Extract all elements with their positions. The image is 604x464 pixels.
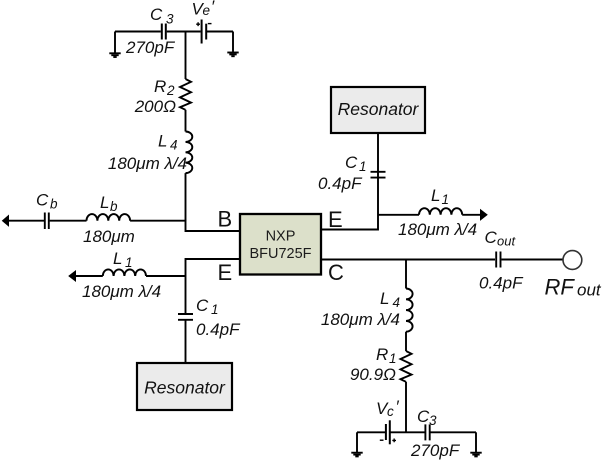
wire L1 branch (top right)	[378, 214, 419, 216]
svg-text:1: 1	[389, 351, 397, 366]
label L4 (upper)	[158, 132, 178, 153]
svg-text:C: C	[150, 5, 163, 24]
inductor L1 (top right)	[419, 208, 462, 215]
svg-text:out: out	[577, 281, 602, 300]
wire emitter (top right) to C1 node	[321, 133, 378, 230]
svg-text:R: R	[376, 345, 388, 364]
svg-text:1: 1	[125, 255, 133, 270]
svg-text:NXP: NXP	[266, 229, 296, 245]
label 0.4pF (top)	[318, 174, 363, 193]
svg-text:0.4pF: 0.4pF	[479, 274, 524, 293]
wire collector to output	[321, 259, 495, 261]
wire L1 to arrow (top right)	[462, 214, 481, 216]
svg-text:E: E	[218, 260, 233, 285]
input arrow (left)	[3, 216, 9, 226]
label C1 (bottom)	[196, 296, 219, 317]
label Ve'	[192, 0, 216, 19]
inductor Lb	[87, 214, 131, 221]
label L1 (top right)	[431, 186, 449, 207]
svg-text:BFU725F: BFU725F	[249, 246, 311, 262]
wire emitter (bottom left) to C1 node	[186, 259, 241, 314]
svg-text:180μm: 180μm	[83, 227, 135, 246]
inductor L4 (upper)	[186, 132, 193, 174]
label RFout	[545, 275, 602, 300]
wire Lb to node B	[130, 220, 185, 222]
node B wire into base	[186, 220, 241, 231]
label 180um lambda/4 (lower)	[321, 310, 400, 329]
label 200ohm	[134, 97, 176, 116]
svg-text:C: C	[36, 191, 49, 210]
svg-text:180μm λ/4: 180μm λ/4	[82, 282, 161, 301]
label 180um lambda/4 (bottom left)	[82, 282, 161, 301]
svg-text:E: E	[328, 207, 343, 232]
battery Vc'	[380, 420, 396, 444]
label L4 (lower)	[380, 289, 400, 310]
label Vc'	[376, 397, 400, 419]
bottom rail wires	[357, 431, 476, 433]
wire arrow to Cb	[8, 220, 44, 222]
wire top-left rail	[115, 31, 233, 33]
wire Cb to Lb	[50, 220, 87, 222]
svg-text:b: b	[50, 197, 58, 212]
wire R1 down to Vc' rail	[405, 382, 407, 433]
capacitor C3 (top, 270pF)	[162, 24, 166, 40]
svg-text:c: c	[387, 404, 394, 419]
svg-text:3: 3	[166, 12, 174, 27]
svg-text:L: L	[380, 289, 389, 308]
label C1 (top)	[345, 153, 367, 174]
label C3	[150, 5, 174, 27]
resistor R2	[180, 79, 191, 110]
wire L4 to R1	[405, 332, 407, 351]
ground G4 (bottom right)	[470, 432, 481, 456]
label R1	[376, 345, 397, 366]
svg-text:L: L	[100, 193, 109, 212]
resonator box (bottom)	[137, 363, 232, 410]
ground G2 (top right of Ve')	[227, 32, 238, 57]
svg-text:0.4pF: 0.4pF	[196, 320, 241, 339]
svg-text:e: e	[203, 3, 211, 18]
wire L1 to arrow (bottom left)	[75, 275, 103, 277]
svg-text:180μm λ/4: 180μm λ/4	[398, 220, 477, 239]
wire L4 to node B	[185, 173, 187, 221]
capacitor C1 (top, 0.4pF)	[371, 172, 386, 178]
wire C1 to resonator (bottom)	[185, 321, 187, 364]
svg-text:L: L	[431, 186, 440, 205]
svg-text:Resonator: Resonator	[338, 99, 420, 119]
svg-text:b: b	[110, 199, 118, 214]
svg-text:out: out	[497, 234, 516, 249]
label 270pF (top)	[125, 38, 176, 57]
svg-text:1: 1	[442, 192, 450, 207]
label C (pin)	[328, 260, 344, 285]
svg-text:90.9Ω: 90.9Ω	[350, 365, 396, 384]
svg-text:270pF: 270pF	[125, 38, 176, 57]
port RFout circle	[563, 251, 582, 270]
wire L1 branch (bottom left)	[146, 275, 186, 277]
ground G3 (bottom left)	[351, 432, 362, 456]
label Lb	[100, 193, 118, 214]
label 270pF (bottom)	[410, 441, 461, 460]
label C3 (bottom)	[417, 407, 437, 428]
svg-text:L: L	[113, 249, 122, 268]
label 0.4pF (output)	[479, 274, 524, 293]
svg-text:C: C	[196, 296, 209, 315]
svg-text:R: R	[154, 77, 166, 96]
svg-text:C: C	[485, 228, 498, 247]
arrow (top right)	[481, 210, 488, 220]
capacitor Cb	[45, 213, 49, 230]
svg-text:Resonator: Resonator	[144, 378, 226, 398]
wire Cout to port	[502, 259, 564, 261]
svg-text:180μm λ/4: 180μm λ/4	[321, 310, 400, 329]
resistor R1	[401, 351, 412, 382]
inductor L4 (lower)	[406, 289, 413, 332]
svg-text:2: 2	[166, 83, 175, 98]
svg-text:C: C	[328, 260, 344, 285]
svg-text:4: 4	[393, 295, 401, 310]
wire from Ve' node down to R2	[185, 32, 187, 80]
svg-text:L: L	[158, 132, 167, 151]
ground G1 (top left)	[109, 32, 120, 58]
label 90.9ohm	[350, 365, 396, 384]
label B	[218, 207, 233, 232]
inductor L1 (bottom left)	[103, 269, 146, 276]
wire R2 to L4	[185, 110, 187, 132]
svg-text:4: 4	[170, 138, 178, 153]
svg-text:180μm λ/4: 180μm λ/4	[108, 154, 187, 173]
label E (top right)	[328, 207, 343, 232]
resonator box (top)	[331, 87, 425, 133]
label L1 (bottom left)	[113, 249, 133, 270]
label Cb	[36, 191, 58, 212]
label 180um (input)	[83, 227, 135, 246]
svg-text:C: C	[345, 153, 358, 172]
label E (bottom left)	[218, 260, 233, 285]
svg-text:RF: RF	[545, 275, 576, 300]
wire collector node down	[405, 260, 407, 289]
label R2	[154, 77, 175, 98]
label 180um lambda/4 (upper)	[108, 154, 187, 173]
capacitor C3 (bottom, 270pF)	[425, 424, 429, 440]
svg-text:270pF: 270pF	[410, 441, 461, 460]
label 180um lambda/4 (top right)	[398, 220, 477, 239]
svg-text:3: 3	[429, 413, 437, 428]
arrow (bottom left)	[69, 271, 76, 281]
capacitor C1 (bottom, 0.4pF)	[178, 314, 193, 320]
battery Ve'	[196, 20, 211, 44]
svg-text:1: 1	[359, 159, 367, 174]
label 0.4pF (bottom)	[196, 320, 241, 339]
svg-text:B: B	[218, 207, 233, 232]
capacitor Cout	[496, 252, 500, 268]
svg-text:1: 1	[211, 302, 219, 317]
transistor U1 NXP BFU725F	[240, 214, 321, 275]
label Cout	[485, 228, 517, 249]
svg-text:200Ω: 200Ω	[134, 97, 176, 116]
svg-text:0.4pF: 0.4pF	[318, 174, 363, 193]
